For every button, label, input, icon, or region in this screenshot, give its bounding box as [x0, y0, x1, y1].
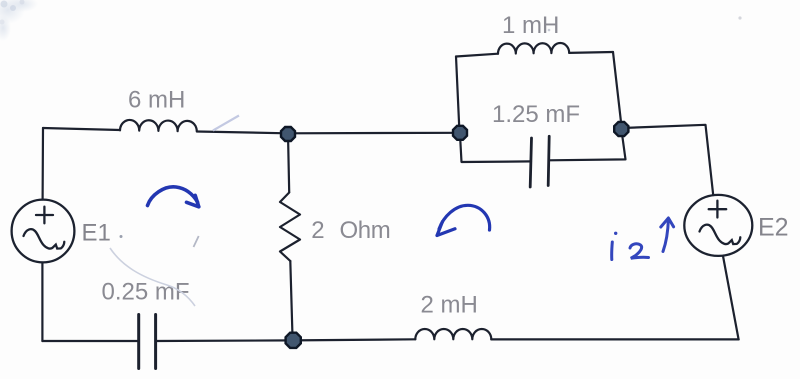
wire resistor branch upper: [288, 134, 289, 192]
resistor R1 2 Ohm zigzag: [280, 193, 300, 262]
pencil tick right of E1: [194, 236, 199, 247]
wire 2 mH to bottom-right corner: [491, 338, 738, 340]
node B: [453, 126, 467, 140]
node A: [281, 127, 295, 141]
mesh current arrow i2 (blue): [437, 205, 490, 235]
node D: [286, 333, 301, 348]
wire node A to node B: [287, 132, 460, 135]
svg-text:1 mH: 1 mH: [502, 12, 559, 39]
capacitor C2 1.25 mF right plate: [548, 136, 549, 185]
capacitor C2 1.25 mF left plate: [530, 138, 531, 187]
wire node C to E2 top: [622, 125, 713, 195]
svg-text:6 mH: 6 mH: [128, 87, 185, 114]
wire loop bottom-left branch (node B down, corner, to capacitor): [460, 140, 531, 162]
pencil speck top middle: [548, 29, 551, 32]
inductor L3 2 mH: [415, 329, 491, 339]
svg-text:0.25 mF: 0.25 mF: [102, 279, 190, 306]
wire left vertical bottom (E1 bottom to bottom-left corner): [41, 263, 43, 342]
wire loop right vertical (top corner to node C): [613, 52, 621, 122]
capacitor C1 0.25 mF left plate: [137, 315, 140, 369]
svg-text:1.25 mF: 1.25 mF: [492, 101, 580, 128]
pencil mark diagonal near 6 mH: [213, 116, 239, 131]
wire loop bottom-right branch (capacitor to corner, up to node C): [549, 136, 626, 160]
wire loop left vertical (node B up to loop top-left corner): [456, 57, 460, 134]
wire resistor branch lower: [290, 261, 292, 340]
svg-text:E2: E2: [758, 214, 789, 242]
mesh current arrow i1 (blue): [148, 187, 199, 207]
wire E2 bottom to bottom-right corner: [723, 256, 739, 339]
wire loop top-right horizontal: [569, 51, 613, 54]
inductor L2 1 mH: [498, 43, 569, 54]
handwritten label i2 (blue): [612, 218, 674, 260]
pencil speck top right: [738, 16, 741, 19]
wire top-left horizontal (corner to 6 mH): [43, 128, 120, 130]
node C: [614, 122, 628, 136]
svg-text:Ohm: Ohm: [340, 217, 391, 244]
wire bottom-left horizontal (corner to 0.25 mF): [42, 340, 138, 342]
pencil dot after E1 label: [120, 235, 123, 238]
voltage source E2: [684, 195, 752, 256]
wire 6 mH to node A: [197, 132, 287, 134]
wire node D to 2 mH: [293, 339, 416, 340]
capacitor C1 0.25 mF right plate: [154, 315, 157, 369]
wire 0.25 mF to node D: [156, 339, 293, 342]
svg-text:E1: E1: [82, 220, 111, 247]
wire loop top-left horizontal: [456, 54, 498, 57]
svg-text:2 mH: 2 mH: [421, 292, 478, 319]
inductor L1 6 mH: [120, 120, 197, 132]
svg-text:2: 2: [311, 217, 324, 244]
voltage source E1: [12, 200, 75, 263]
pencil arc through 0.25 mF label: [110, 248, 195, 306]
scan smudge top-left corner: [0, 0, 38, 41]
wire left vertical top (E1 top to top-left corner): [41, 128, 44, 200]
